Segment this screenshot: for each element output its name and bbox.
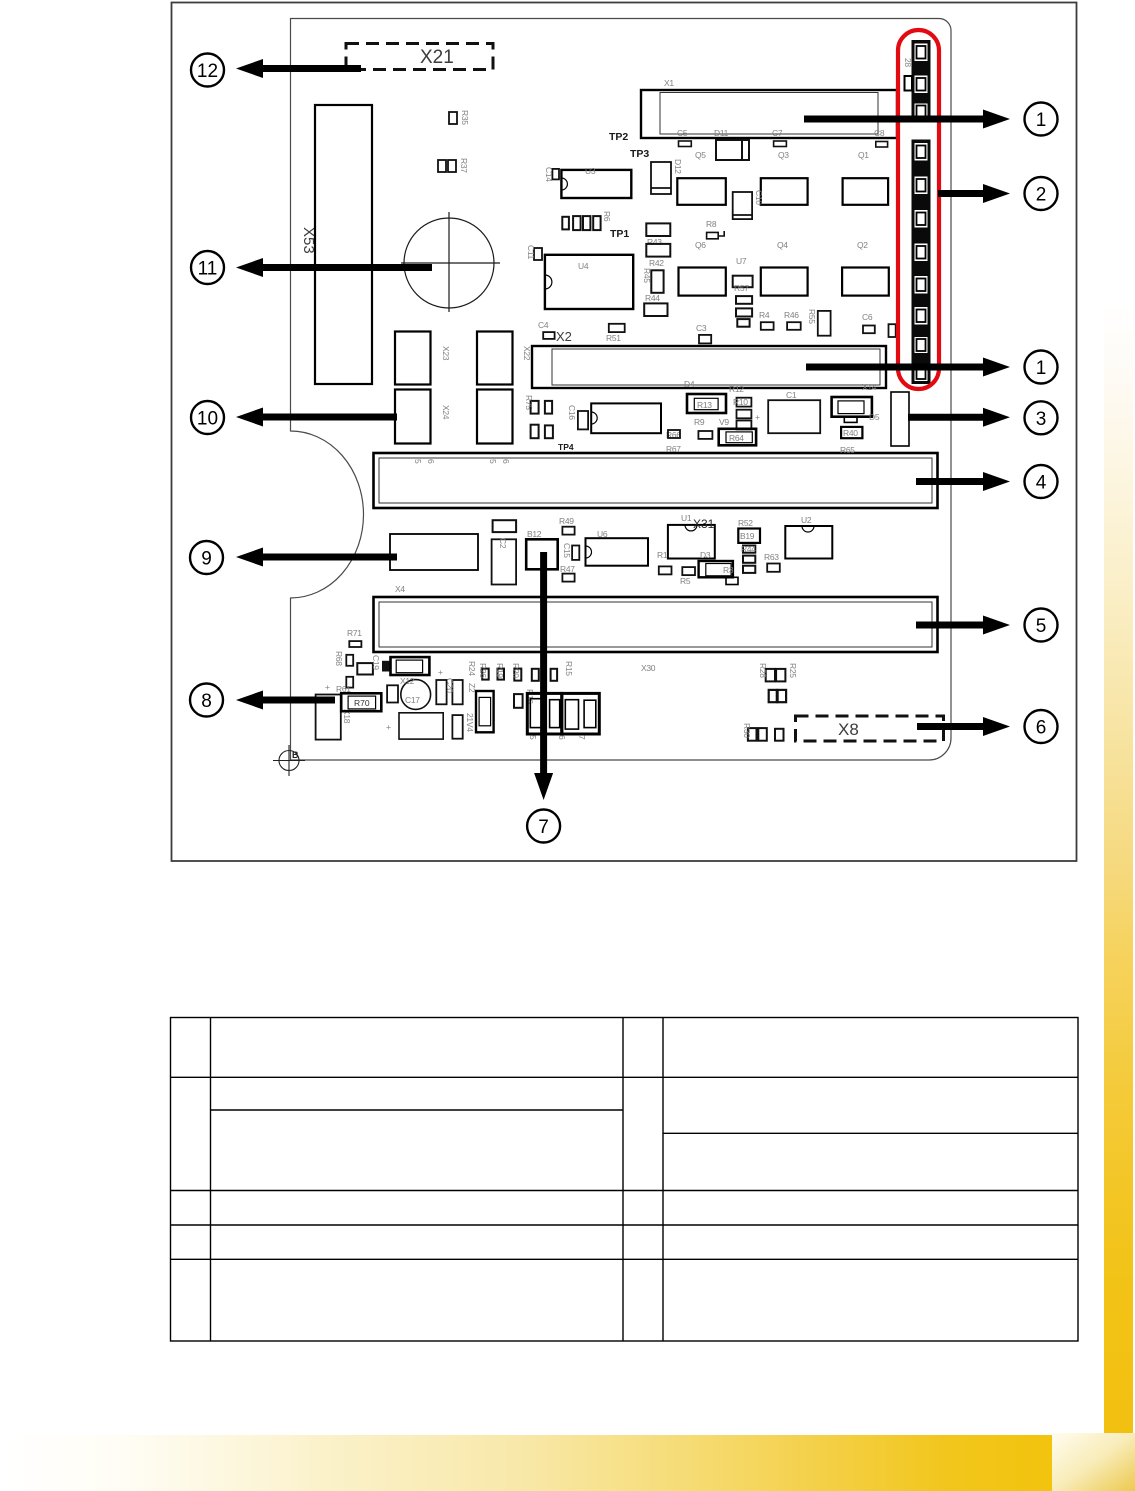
svg-text:R1: R1 xyxy=(657,550,668,560)
resistors R21 R24 xyxy=(769,690,786,702)
relay X12 xyxy=(391,657,430,675)
connector X2 xyxy=(532,346,886,388)
resistors R30 R31 xyxy=(748,728,784,741)
LED V11 xyxy=(912,72,931,96)
transistor pads row2 xyxy=(679,268,889,296)
svg-text:R12: R12 xyxy=(729,384,744,394)
fiducial mark bottom-left xyxy=(273,745,305,776)
LED V10 xyxy=(912,40,931,64)
arrow 2 xyxy=(938,184,1010,203)
svg-text:C10: C10 xyxy=(754,190,764,205)
svg-text:X30: X30 xyxy=(641,663,656,673)
svg-text:X14: X14 xyxy=(862,382,877,392)
arrow 7 (vertical) xyxy=(534,552,553,800)
svg-text:C4: C4 xyxy=(538,320,549,330)
svg-text:R49: R49 xyxy=(559,516,574,526)
svg-text:R42: R42 xyxy=(649,258,664,268)
diode D12 xyxy=(651,162,671,194)
transformer B12 xyxy=(526,539,558,569)
svg-text:21V4: 21V4 xyxy=(465,713,475,732)
svg-text:TP1: TP1 xyxy=(610,228,629,240)
zener Z2 xyxy=(476,691,494,732)
svg-text:Q3: Q3 xyxy=(778,150,789,160)
decorative gradient bars xyxy=(1104,303,1133,1435)
IC U1 / X31 xyxy=(668,525,715,559)
capacitor C16 xyxy=(578,411,588,429)
resistor R5 xyxy=(659,566,695,575)
resistor R45 xyxy=(651,270,663,293)
page frame xyxy=(172,3,1077,862)
diode D5 block xyxy=(832,397,872,422)
svg-text:3: 3 xyxy=(1036,409,1047,430)
svg-text:6: 6 xyxy=(557,735,567,740)
svg-text:R37: R37 xyxy=(459,158,469,173)
svg-text:D4: D4 xyxy=(684,379,695,389)
IC U2 xyxy=(785,526,832,559)
svg-text:Q1: Q1 xyxy=(858,150,869,160)
svg-text:R28: R28 xyxy=(758,663,768,678)
svg-text:Q2: Q2 xyxy=(857,240,868,250)
svg-text:9: 9 xyxy=(201,549,212,570)
svg-text:D12: D12 xyxy=(673,159,683,174)
arrow 9 xyxy=(236,548,397,567)
svg-text:X4: X4 xyxy=(395,584,405,594)
PCB board outline xyxy=(291,19,952,761)
svg-text:6: 6 xyxy=(501,459,511,464)
svg-text:R70: R70 xyxy=(354,698,370,708)
resistor R35 xyxy=(449,112,457,124)
resistor row R26 R19 R20 R22 R15 xyxy=(482,669,557,681)
resistor R43 xyxy=(646,223,670,236)
LED V15 xyxy=(912,207,931,231)
bottom table xyxy=(171,1018,1079,1342)
svg-text:C19: C19 xyxy=(371,655,381,670)
svg-text:8: 8 xyxy=(201,691,212,712)
IC U3 xyxy=(561,170,631,198)
resistor R68 xyxy=(346,655,353,688)
svg-text:B: B xyxy=(292,750,299,760)
svg-text:R61: R61 xyxy=(336,684,351,694)
resistor R55 xyxy=(818,311,831,336)
LED V16 xyxy=(912,240,931,264)
zener 21V4 xyxy=(452,715,462,739)
resistors R54 stack xyxy=(743,546,755,573)
svg-text:+: + xyxy=(386,722,391,732)
svg-text:X2: X2 xyxy=(556,329,572,344)
svg-text:C14: C14 xyxy=(544,167,554,182)
svg-text:X53: X53 xyxy=(300,227,317,254)
arrow 6 xyxy=(917,717,1010,736)
svg-text:R35: R35 xyxy=(460,110,470,125)
LED V13 xyxy=(912,140,931,164)
svg-text:R71: R71 xyxy=(347,628,362,638)
resistor network R61 row xyxy=(562,216,600,230)
svg-text:5: 5 xyxy=(528,735,538,740)
svg-text:R13: R13 xyxy=(697,400,712,410)
rect below C17 xyxy=(399,713,443,739)
svg-text:Q5: Q5 xyxy=(695,150,706,160)
connector X14 xyxy=(891,392,909,446)
resistors R58 R59 xyxy=(736,296,752,327)
svg-text:1: 1 xyxy=(1036,110,1047,131)
svg-text:6: 6 xyxy=(1036,718,1047,739)
svg-text:X24: X24 xyxy=(441,405,451,420)
connector X1 xyxy=(641,90,897,138)
crystal circle xyxy=(401,212,500,312)
svg-text:D5: D5 xyxy=(869,412,880,422)
capacitor C2 xyxy=(493,520,516,532)
dashed connector X8 xyxy=(796,716,944,741)
capacitor C19 xyxy=(357,663,373,674)
svg-text:C1: C1 xyxy=(786,390,797,400)
svg-text:+: + xyxy=(325,682,330,692)
svg-text:TP4: TP4 xyxy=(558,442,574,452)
svg-text:Q6: Q6 xyxy=(695,240,706,250)
svg-text:C15: C15 xyxy=(562,543,572,558)
svg-text:+: + xyxy=(438,667,443,677)
svg-text:TP3: TP3 xyxy=(630,148,649,160)
resistor R57 xyxy=(733,276,753,288)
svg-text:C6: C6 xyxy=(862,312,873,322)
arrow 8 xyxy=(236,691,335,710)
LED V19 xyxy=(912,334,931,356)
resistor R37 xyxy=(438,160,446,172)
svg-text:11: 11 xyxy=(198,259,218,280)
svg-text:R44: R44 xyxy=(741,544,756,554)
LED V20 xyxy=(912,362,931,384)
svg-text:B19: B19 xyxy=(740,531,755,541)
svg-text:C17: C17 xyxy=(405,695,420,705)
connector X4 row 5 xyxy=(374,597,938,652)
svg-text:2: 2 xyxy=(1036,185,1047,206)
svg-text:R25: R25 xyxy=(788,663,798,678)
svg-text:R6: R6 xyxy=(602,211,612,222)
svg-text:R20: R20 xyxy=(511,663,521,678)
svg-text:R46: R46 xyxy=(784,310,799,320)
svg-text:C20: C20 xyxy=(445,678,455,693)
svg-text:R67: R67 xyxy=(666,444,681,454)
diode dark xyxy=(382,661,390,672)
capacitor C10 xyxy=(733,192,752,219)
svg-text:5: 5 xyxy=(1036,616,1047,637)
arrow 12 xyxy=(236,59,361,78)
resistor R51 xyxy=(609,324,625,332)
svg-text:X22: X22 xyxy=(522,346,532,361)
svg-text:R3: R3 xyxy=(723,565,734,575)
svg-text:28: 28 xyxy=(903,58,913,67)
svg-text:X1: X1 xyxy=(664,78,674,88)
svg-text:R30: R30 xyxy=(742,723,752,738)
arrow 3 xyxy=(908,408,1010,427)
IC U5 xyxy=(591,403,661,433)
resistor R16 xyxy=(514,694,523,708)
resistor R13 block xyxy=(687,394,726,413)
svg-text:R24: R24 xyxy=(467,661,477,676)
capacitor C20 xyxy=(436,680,462,704)
arrow 5 xyxy=(916,616,1010,635)
svg-text:TP2: TP2 xyxy=(609,131,628,143)
svg-text:C2: C2 xyxy=(498,538,508,549)
capacitor C17 electrolytic xyxy=(401,680,431,710)
svg-text:R47: R47 xyxy=(560,564,575,574)
svg-text:R68: R68 xyxy=(334,651,344,666)
resistor R70 block xyxy=(341,693,381,711)
svg-text:U6: U6 xyxy=(597,529,608,539)
resistor R40 block xyxy=(841,427,862,438)
svg-text:D3: D3 xyxy=(700,550,711,560)
capacitor C11 xyxy=(534,248,542,260)
svg-text:X12: X12 xyxy=(400,676,415,686)
svg-text:U1: U1 xyxy=(681,513,692,523)
svg-text:12: 12 xyxy=(197,61,218,82)
dashed connector X21 xyxy=(346,44,493,70)
connector X23 xyxy=(395,332,431,385)
arrow 11 xyxy=(236,258,432,277)
LED V18 xyxy=(912,304,931,328)
connector X18 xyxy=(316,695,341,740)
svg-text:R10: R10 xyxy=(733,397,748,407)
svg-text:R8: R8 xyxy=(706,219,717,229)
svg-text:5: 5 xyxy=(413,459,423,464)
svg-text:C7: C7 xyxy=(772,128,783,138)
svg-text:X23: X23 xyxy=(441,346,451,361)
IC U4 xyxy=(545,255,633,309)
resistor R39 xyxy=(448,160,456,172)
svg-text:R55: R55 xyxy=(807,309,817,324)
svg-text:R43: R43 xyxy=(647,237,662,247)
callout circles xyxy=(190,54,1058,843)
svg-text:R52: R52 xyxy=(738,518,753,528)
diode D3 block xyxy=(699,561,738,585)
svg-text:U2: U2 xyxy=(801,515,812,525)
LED V12 xyxy=(912,101,931,123)
transistor pads row1 xyxy=(677,178,888,205)
svg-text:X8: X8 xyxy=(838,720,859,739)
svg-text:R19: R19 xyxy=(495,663,505,678)
svg-text:B12: B12 xyxy=(527,529,542,539)
capacitor C14 xyxy=(552,169,559,180)
LED column xyxy=(903,40,931,384)
svg-text:R5: R5 xyxy=(680,576,691,586)
resistors R28 R25 xyxy=(766,669,786,682)
svg-text:C5: C5 xyxy=(677,128,688,138)
arrow 1b xyxy=(806,358,1010,377)
svg-text:R4: R4 xyxy=(759,310,770,320)
svg-text:4: 4 xyxy=(1036,473,1047,494)
resistor R56 xyxy=(889,324,896,337)
svg-text:R57: R57 xyxy=(734,283,749,293)
svg-text:R26: R26 xyxy=(478,663,488,678)
svg-text:R40: R40 xyxy=(843,428,858,438)
svg-text:R75: R75 xyxy=(524,395,534,410)
svg-text:U7: U7 xyxy=(736,256,747,266)
LED V14 xyxy=(912,173,931,197)
module rect (callout 9) xyxy=(390,534,478,570)
svg-text:X31: X31 xyxy=(693,517,715,531)
svg-text:R64: R64 xyxy=(729,433,744,443)
svg-text:R44: R44 xyxy=(645,293,660,303)
svg-text:U3: U3 xyxy=(585,166,596,176)
svg-text:5: 5 xyxy=(488,459,498,464)
connector X53 xyxy=(315,105,372,384)
svg-text:R51: R51 xyxy=(606,333,621,343)
connector X24 xyxy=(395,390,431,444)
varistor block V5 V6 V7 xyxy=(527,693,599,734)
svg-text:7: 7 xyxy=(577,735,587,740)
red highlight stadium xyxy=(898,30,939,389)
LED V17 xyxy=(912,273,931,297)
svg-text:+: + xyxy=(755,412,760,422)
resistors R10 stack xyxy=(737,398,752,430)
resistor R64 block xyxy=(719,429,756,446)
svg-text:6: 6 xyxy=(426,459,436,464)
inductor L1 xyxy=(387,685,398,702)
svg-text:1: 1 xyxy=(1036,358,1047,379)
arrow 4 xyxy=(916,472,1010,491)
svg-text:R63: R63 xyxy=(764,552,779,562)
svg-text:C11: C11 xyxy=(526,245,536,260)
connector pair right xyxy=(477,332,513,385)
svg-text:U4: U4 xyxy=(578,261,589,271)
LED pin stub xyxy=(905,76,913,91)
IC U6 xyxy=(586,538,649,566)
svg-text:C3: C3 xyxy=(696,323,707,333)
svg-text:R9: R9 xyxy=(694,417,705,427)
svg-text:7: 7 xyxy=(538,817,549,838)
svg-text:X21: X21 xyxy=(420,47,454,68)
svg-text:10: 10 xyxy=(197,409,218,430)
small components top-left xyxy=(438,112,457,172)
svg-text:C16: C16 xyxy=(567,405,577,420)
arrow 10 xyxy=(236,408,397,427)
svg-text:Q4: Q4 xyxy=(777,240,788,250)
svg-text:Z2: Z2 xyxy=(467,683,477,693)
svg-text:R45: R45 xyxy=(642,268,652,283)
svg-text:V9: V9 xyxy=(719,417,729,427)
resistor R41 xyxy=(646,244,670,257)
resistors R75 R76 xyxy=(531,401,553,438)
svg-text:R15: R15 xyxy=(564,661,574,676)
svg-text:C8: C8 xyxy=(874,128,885,138)
svg-text:R65: R65 xyxy=(840,445,855,455)
svg-text:D11: D11 xyxy=(714,128,729,138)
connector row 4 xyxy=(374,453,938,508)
arrow 1a xyxy=(804,110,1010,129)
capacitor C15 xyxy=(572,546,579,560)
